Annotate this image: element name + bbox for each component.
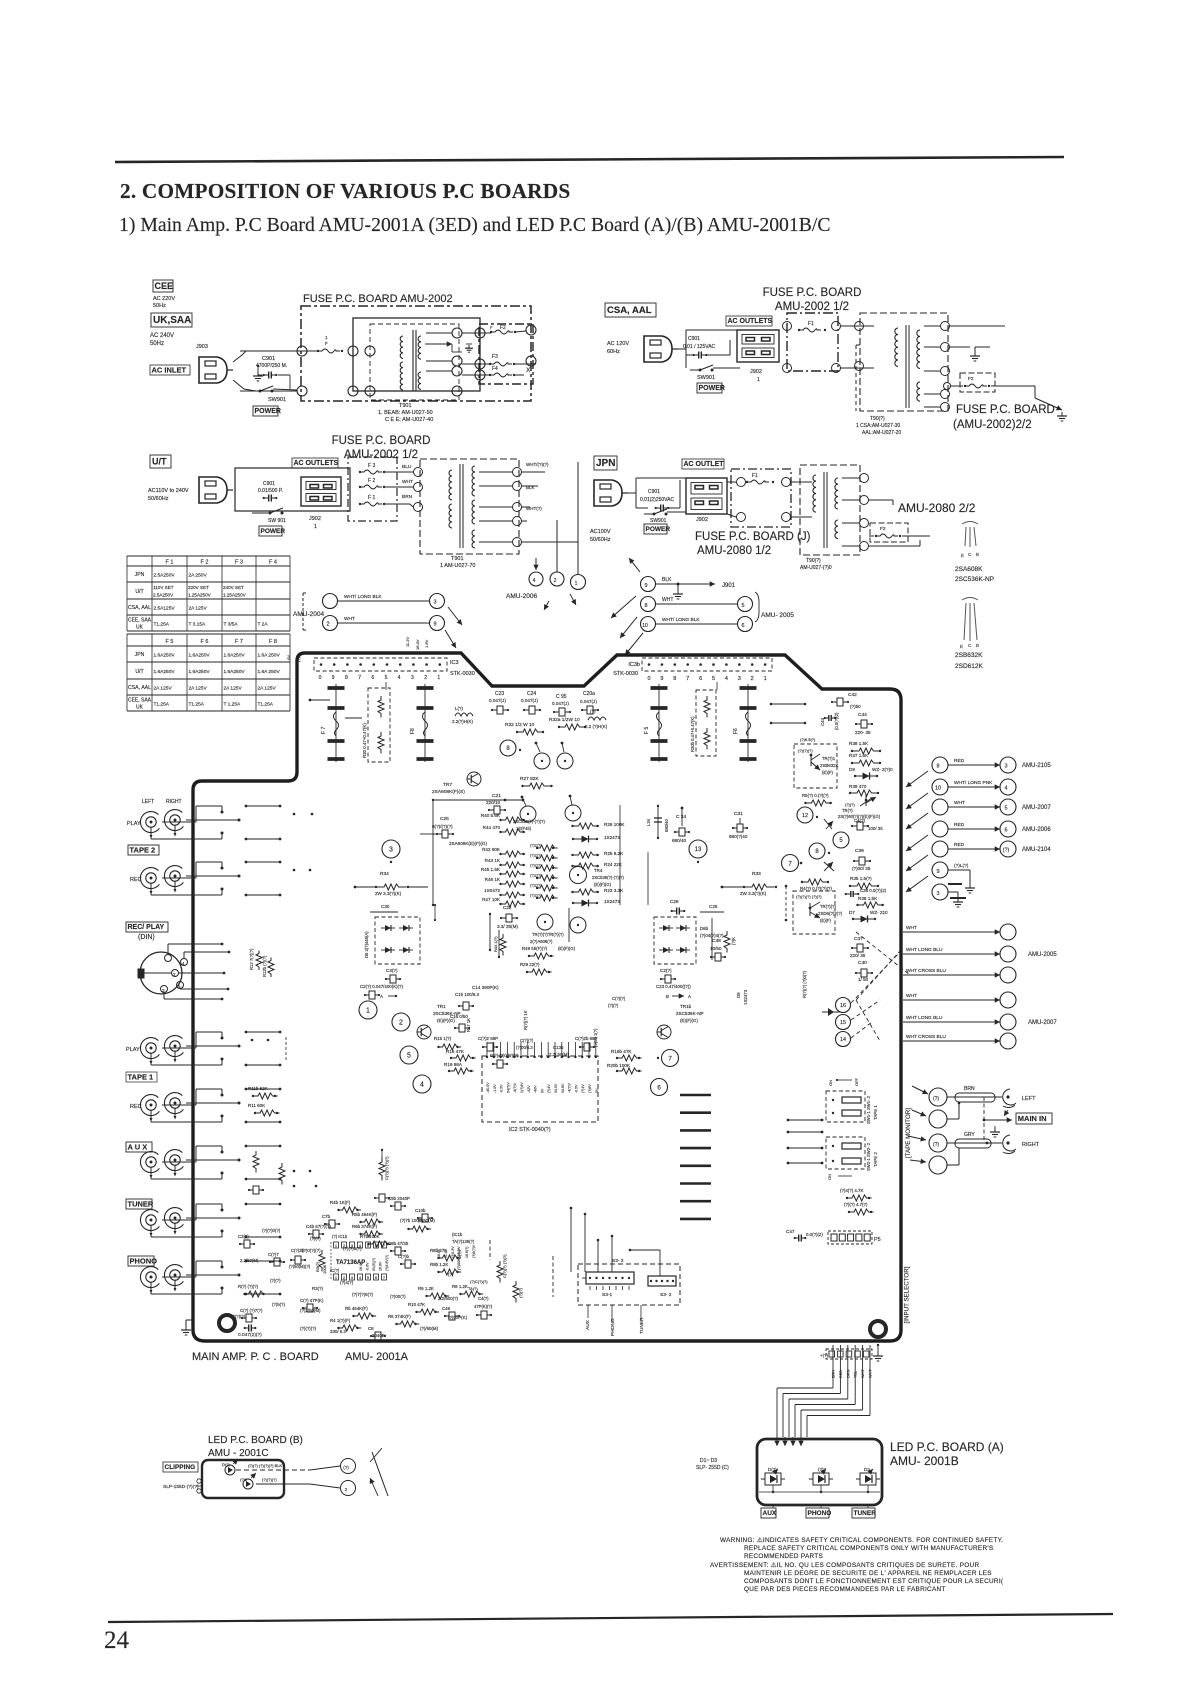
svg-text:(?)7b 100K: (?)7b 100K <box>400 1218 422 1223</box>
svg-text:15: 15 <box>840 1020 846 1026</box>
junction circles left <box>297 346 307 356</box>
svg-text:2040P: 2040P <box>372 1333 385 1338</box>
numbered circle 12 <box>797 807 813 823</box>
svg-text:AMU-2105: AMU-2105 <box>1022 763 1051 769</box>
label CLIPPING <box>163 1462 198 1472</box>
svg-text:CSA, AAL: CSA, AAL <box>128 605 151 611</box>
svg-text:2SB632K: 2SB632K <box>955 652 983 659</box>
fuse table F1-F4 <box>127 555 290 557</box>
dashed vertical left of TR13 <box>785 886 787 920</box>
transistors TR9 TR10 <box>537 914 553 930</box>
numbered circle right 6 <box>651 1079 668 1096</box>
svg-text:(?)L(?): (?)L(?) <box>954 863 969 869</box>
svg-text:2A 125V: 2A 125V <box>189 686 208 692</box>
transformer core <box>412 330 414 391</box>
svg-text:2.5A250V: 2.5A250V <box>153 592 174 597</box>
wire stubs top right <box>771 703 805 705</box>
svg-text:2: 2 <box>343 1276 345 1280</box>
svg-text:TA(?): TA(?) <box>468 1286 478 1291</box>
svg-text:0.0(?)(2): 0.0(?)(2) <box>806 1232 823 1237</box>
AC plug J903 <box>199 357 227 383</box>
svg-text:R(?) (?)(?): R(?) (?)(?) <box>238 1284 259 1289</box>
svg-text:-42V: -42V <box>527 1085 531 1093</box>
svg-text:R46 1K: R46 1K <box>485 877 501 882</box>
svg-text:A U X: A U X <box>128 1143 148 1152</box>
svg-text:(?)6.5(?): (?)6.5(?) <box>800 737 816 742</box>
numbered circle 4 <box>413 1075 431 1093</box>
svg-text:(DIN): (DIN) <box>138 934 155 941</box>
svg-text:AUX: AUX <box>763 1510 777 1517</box>
svg-text:2SC536K-NP: 2SC536K-NP <box>955 576 994 583</box>
svg-text:R25 8.2K: R25 8.2K <box>604 851 624 856</box>
bottom rule <box>108 1614 1113 1622</box>
svg-text:(?)2(?): (?)2(?) <box>530 854 542 858</box>
svg-text:(?): (?) <box>1003 848 1010 854</box>
arrows AMU-2006 <box>535 558 537 570</box>
svg-text:C38 0.0(?)(2): C38 0.0(?)(2) <box>860 888 887 893</box>
svg-text:1S0472: 1S0472 <box>484 888 500 893</box>
svg-text:2SD6(?)2(?): 2SD6(?)2(?) <box>818 911 843 916</box>
central transistor circles pair <box>520 806 536 822</box>
svg-text:1.6A250V: 1.6A250V <box>224 653 246 659</box>
svg-text:F1: F1 <box>808 321 814 327</box>
svg-text:UK: UK <box>136 625 144 631</box>
svg-text:R7b 100K: R7b 100K <box>360 1234 380 1239</box>
svg-text:RIGHT: RIGHT <box>1022 1142 1040 1148</box>
svg-text:C42: C42 <box>848 692 857 698</box>
led D1 board B <box>225 1465 235 1475</box>
svg-text:R32a 1/2W 10: R32a 1/2W 10 <box>549 717 580 723</box>
ground main in <box>994 1126 996 1130</box>
svg-text:D6b: D6b <box>700 926 709 931</box>
svg-text:F1: F1 <box>752 473 758 479</box>
svg-text:JPN: JPN <box>135 652 145 658</box>
svg-text:RED: RED <box>954 758 965 764</box>
svg-text:IC(?): IC(?) <box>330 1268 340 1273</box>
svg-text:T1.25A: T1.25A <box>154 702 170 708</box>
svg-text:R38 1.5K: R38 1.5K <box>849 741 869 746</box>
svg-text:14: 14 <box>840 1037 846 1043</box>
svg-text:(?)(?)(?): (?)(?)(?) <box>262 1477 277 1482</box>
svg-text:AMU-2002 1/2: AMU-2002 1/2 <box>344 449 418 461</box>
fuse F7 with capacitors <box>335 684 337 762</box>
svg-text:C40: C40 <box>858 960 867 966</box>
svg-text:CEE: CEE <box>155 281 174 291</box>
svg-text:COMPOSANTS DONT LE FONCTION: COMPOSANTS DONT LE FONCTIONNEMENT EST CR… <box>744 1578 1004 1585</box>
svg-text:16.6V: 16.6V <box>379 1261 383 1271</box>
svg-text:220- 35: 220- 35 <box>855 730 871 735</box>
svg-text:C47: C47 <box>786 1229 795 1234</box>
svg-text:1: 1 <box>335 1244 337 1248</box>
svg-text:220/10: 220/10 <box>486 800 500 805</box>
svg-text:R39 470: R39 470 <box>849 784 867 789</box>
svg-text:TA(?)136(?): TA(?)136(?) <box>452 1239 475 1244</box>
svg-text:WHT CROSS BLU: WHT CROSS BLU <box>906 968 946 974</box>
svg-text:3: 3 <box>738 676 741 682</box>
CSA secondary taps <box>941 322 950 331</box>
resistor R30 0.47+0.47(K) <box>368 688 390 762</box>
svg-text:C(?)7: C(?)7 <box>268 1252 279 1257</box>
svg-text:F 5: F 5 <box>166 639 174 645</box>
svg-text:-4(?)V: -4(?)V <box>513 1082 517 1093</box>
svg-text:R12 7(?)(?): R12 7(?)(?) <box>249 948 254 970</box>
svg-text:5: 5 <box>367 1276 369 1280</box>
arrows AMU-2005 <box>629 558 640 572</box>
svg-text:50Hz: 50Hz <box>150 341 164 347</box>
svg-text:BLU: BLU <box>402 464 412 470</box>
svg-text:(?)6(?)V: (?)6(?)V <box>472 1244 476 1258</box>
svg-text:LEFT: LEFT <box>142 799 154 805</box>
svg-text:J902: J902 <box>309 516 321 522</box>
label POWER <box>253 406 278 416</box>
jack TUNER <box>140 1210 159 1231</box>
svg-text:MAIN AMP. P. C . BOARD: MAIN AMP. P. C . BOARD <box>192 1351 319 1363</box>
capacitor C38 0.01(2) <box>846 893 851 895</box>
svg-text:2SD612K: 2SD612K <box>955 663 983 670</box>
U/T block outline <box>235 468 350 511</box>
svg-text:(?)/50(M): (?)/50(M) <box>420 1326 439 1331</box>
svg-text:8: 8 <box>644 603 647 609</box>
label POWER JPN <box>644 524 667 534</box>
svg-text:TAPE 2: TAPE 2 <box>130 846 156 855</box>
svg-text:1/ 50: 1/ 50 <box>858 977 869 982</box>
JPN secondary taps <box>860 474 869 483</box>
svg-text:T1.25A: T1.25A <box>189 702 205 708</box>
fuse block F2 F3 F4 <box>479 324 533 384</box>
ic IC1 TA7136AP <box>334 1242 339 1248</box>
U/T transformer coils <box>449 470 452 500</box>
svg-text:T90(?): T90(?) <box>870 416 885 422</box>
svg-text:16.6V: 16.6V <box>437 1248 441 1258</box>
svg-text:(?)(?): (?)(?) <box>608 1003 619 1008</box>
fuse table F5-F8 <box>127 633 290 635</box>
svg-text:D(?): D(?) <box>222 1462 230 1467</box>
inner dot pairs left <box>293 1170 296 1173</box>
svg-text:F 8: F 8 <box>269 639 277 645</box>
svg-text:AC OUTLET: AC OUTLET <box>684 461 725 468</box>
svg-text:(?)2/50(M): (?)2/50(M) <box>300 1308 321 1313</box>
mounting hole left <box>219 1315 235 1331</box>
svg-text:60Hz: 60Hz <box>607 349 620 355</box>
svg-text:C(?)b: C(?)b <box>398 1254 410 1259</box>
svg-text:R34: R34 <box>380 871 389 877</box>
led board A internal wires <box>759 1491 880 1493</box>
svg-text:F: F <box>325 341 328 346</box>
label AUX <box>126 1142 152 1152</box>
board edge circles 16 15 14 <box>836 998 851 1013</box>
arrow to 2/2 <box>1034 386 1036 398</box>
svg-text:2SB632K: 2SB632K <box>820 763 839 768</box>
svg-text:(?)00K 15.9V: (?)00K 15.9V <box>456 1246 461 1270</box>
svg-text:(?)4V: (?)4V <box>547 1084 551 1093</box>
svg-text:4: 4 <box>533 578 536 584</box>
svg-text:WHT/ LONG BLK: WHT/ LONG BLK <box>344 594 382 600</box>
svg-text:(?)(?) 4.7(?): (?)(?) 4.7(?) <box>844 1202 868 1207</box>
svg-text:C46: C46 <box>442 1306 451 1311</box>
svg-text:RED: RED <box>839 1370 843 1378</box>
transistor TR13 dashed box <box>793 891 835 934</box>
svg-text:F4: F4 <box>492 366 498 372</box>
svg-text:(?)2: (?)2 <box>240 1477 248 1482</box>
svg-text:2: 2 <box>751 676 754 682</box>
svg-text:C15 100/6.3: C15 100/6.3 <box>455 992 479 997</box>
label TAPE 1 <box>126 1072 157 1082</box>
svg-text:WHT LONG BLU: WHT LONG BLU <box>906 947 943 953</box>
svg-text:5: 5 <box>741 603 744 609</box>
svg-text:AVERTISSEMENT: ⚠IL NO. QU L: AVERTISSEMENT: ⚠IL NO. QU LES COMPOSANTS… <box>710 1562 979 1569</box>
svg-text:3: 3 <box>936 891 939 897</box>
svg-text:C20a: C20a <box>583 691 595 697</box>
svg-text:1.25A250V: 1.25A250V <box>223 592 247 597</box>
jack PHONO <box>140 1267 159 1288</box>
svg-text:F3: F3 <box>492 354 498 360</box>
JPN wires from plug <box>628 492 636 494</box>
DIN wires <box>167 944 169 954</box>
svg-text:(?)(?): (?)(?) <box>310 1236 321 1241</box>
svg-text:P5: P5 <box>874 1237 881 1243</box>
svg-text:TUNER: TUNER <box>639 1317 645 1334</box>
svg-text:PLAY: PLAY <box>127 821 141 827</box>
svg-text:1(?)4V: 1(?)4V <box>520 1082 524 1093</box>
switch SW901 <box>233 380 244 389</box>
svg-text:(?)6.6V(?): (?)6.6V(?) <box>385 1255 389 1271</box>
jack AUX <box>140 1152 159 1173</box>
svg-text:0.047(2)(?): 0.047(2)(?) <box>238 1332 262 1338</box>
led D2 board B <box>243 1479 253 1489</box>
svg-text:5: 5 <box>367 1244 369 1248</box>
svg-text:R6 374K(F): R6 374K(F) <box>388 1314 411 1319</box>
svg-text:POWER: POWER <box>261 528 286 535</box>
svg-text:680(?)40: 680(?)40 <box>729 834 748 839</box>
svg-text:2A 125V: 2A 125V <box>258 686 277 692</box>
vertical resistor line right of bridge <box>711 918 713 960</box>
svg-text:SW901: SW901 <box>697 375 715 381</box>
label PHONO <box>128 1256 154 1266</box>
outlet J902 JPN <box>686 478 727 514</box>
svg-text:1: 1 <box>366 1008 370 1015</box>
svg-text:1.6A250V: 1.6A250V <box>154 653 176 659</box>
capacitor C42 1/50 <box>832 701 837 703</box>
led board B outline AMU-2001C <box>202 1460 284 1498</box>
svg-text:C(?)(?): C(?)(?) <box>612 996 626 1001</box>
svg-text:16.4V: 16.4V <box>359 1261 363 1271</box>
DIN connector <box>140 952 182 994</box>
svg-text:R4(?) 0.(?)(?)(?): R4(?) 0.(?)(?)(?) <box>800 886 832 891</box>
label AC OUTLETS CSA <box>726 316 772 326</box>
label JPN <box>594 456 617 470</box>
svg-text:3: 3 <box>351 1276 353 1280</box>
svg-text:ON: ON <box>827 1174 832 1180</box>
svg-text:(?)00/6.3: (?)00/6.3 <box>516 1045 533 1050</box>
svg-text:(E)(F)(G): (E)(F)(G) <box>680 1018 698 1023</box>
svg-text:T901: T901 <box>451 556 464 562</box>
svg-text:-40.0V: -40.0V <box>486 1082 490 1093</box>
transformer T901 U/T dashed box <box>420 459 519 554</box>
svg-text:POWER: POWER <box>646 526 671 533</box>
svg-text:(?)(?)(?) (?)(?): (?)(?)(?) (?)(?) <box>796 894 822 899</box>
svg-text:R5(?) 0.(?)(?): R5(?) 0.(?)(?) <box>802 793 829 798</box>
svg-text:1.25A250V: 1.25A250V <box>188 592 212 597</box>
svg-text:C(?)(?) (?)(?): C(?)(?) (?)(?) <box>384 1156 389 1180</box>
svg-text:(?)0(?)(?): (?)0(?)(?) <box>302 1248 321 1253</box>
svg-text:7: 7 <box>788 860 792 867</box>
svg-text:(?)50(M)(?): (?)50(M)(?) <box>289 1264 311 1269</box>
svg-text:F8: F8 <box>410 728 416 734</box>
label MAIN IN <box>1016 1113 1052 1124</box>
svg-text:[TAPE MONITOR]: [TAPE MONITOR] <box>905 1108 912 1158</box>
svg-text:R26 100K: R26 100K <box>604 822 625 827</box>
svg-text:CLIPPING: CLIPPING <box>165 1464 196 1471</box>
svg-text:C44: C44 <box>858 712 867 718</box>
svg-text:6: 6 <box>371 675 374 681</box>
switch SW901 JPN <box>653 513 656 516</box>
label UK,SAA <box>151 313 192 327</box>
svg-text:L(?): L(?) <box>455 706 464 711</box>
svg-text:TR(?): TR(?) <box>842 808 853 813</box>
svg-text:CSA, AAL: CSA, AAL <box>607 305 652 316</box>
svg-text:C901: C901 <box>648 489 660 495</box>
svg-text:2: 2 <box>554 578 557 584</box>
svg-text:R42 60K: R42 60K <box>482 847 501 852</box>
svg-text:R6b 374K(F): R6b 374K(F) <box>352 1224 378 1229</box>
svg-text:AC INLET: AC INLET <box>152 366 187 375</box>
svg-text:SW1-1 SW1- 2: SW1-1 SW1- 2 <box>866 1095 871 1124</box>
svg-text:F 3: F 3 <box>368 463 375 469</box>
svg-text:50/60Hz: 50/60Hz <box>590 537 611 543</box>
svg-text:1S2473: 1S2473 <box>743 989 748 1005</box>
svg-text:0.047(J): 0.047(J) <box>580 699 597 704</box>
svg-text:2: 2 <box>424 675 427 681</box>
svg-text:5: 5 <box>385 675 388 681</box>
svg-text:C10b: C10b <box>415 1208 426 1213</box>
svg-text:C4b 67(?)(?): C4b 67(?)(?) <box>306 1224 331 1229</box>
svg-text:F 2: F 2 <box>368 478 375 484</box>
wire bundle routing <box>832 1382 834 1388</box>
svg-text:SW901: SW901 <box>650 518 667 524</box>
svg-text:R47 10K: R47 10K <box>482 897 501 902</box>
svg-text:AC OUTLETS: AC OUTLETS <box>728 318 773 325</box>
svg-text:AC 240V: AC 240V <box>150 333 174 339</box>
right row 9 BLK ground <box>932 862 948 878</box>
svg-text:13: 13 <box>695 847 702 853</box>
svg-text:REPLACE SAFETY CRITICAL COM: REPLACE SAFETY CRITICAL COMPONENTS ONLY … <box>744 1545 994 1552</box>
svg-text:AMU- 2001B: AMU- 2001B <box>890 1454 959 1468</box>
transformer secondary coils <box>418 336 421 359</box>
stubs below IC3 connectors <box>385 682 387 690</box>
ground CSA <box>974 347 976 352</box>
AC plug CSA <box>644 336 672 362</box>
svg-text:AC110V to 240V: AC110V to 240V <box>148 488 189 494</box>
svg-text:LEFT: LEFT <box>1022 1096 1036 1102</box>
svg-text:(E)(F): (E)(F) <box>820 918 832 923</box>
svg-text:9: 9 <box>332 675 335 681</box>
svg-text:(E)(F)(G): (E)(F)(G) <box>558 946 576 951</box>
transistor TR11 dashed box <box>794 744 837 788</box>
svg-text:2.2 (?)H(K): 2.2 (?)H(K) <box>585 724 608 729</box>
svg-text:C2(?): C2(?) <box>660 968 672 973</box>
label AC OUTLETS U/T <box>292 458 338 468</box>
fuse F2 CSA <box>960 373 995 392</box>
svg-text:110V SET: 110V SET <box>153 585 174 590</box>
svg-text:1: 1 <box>314 524 317 530</box>
svg-text:C21: C21 <box>492 793 501 799</box>
wire to MAIN IN <box>947 1118 959 1120</box>
fuse block JPN <box>731 469 791 527</box>
svg-text:2.2/500(?): 2.2/500(?) <box>438 1296 459 1301</box>
svg-text:X: X <box>526 367 531 374</box>
switch SW901 CSA <box>699 369 702 372</box>
svg-text:F 7: F 7 <box>321 727 327 734</box>
csa dashed link box <box>856 344 860 346</box>
ground at plug <box>257 366 259 372</box>
U/T secondary taps <box>513 468 522 477</box>
svg-text:7: 7 <box>383 1276 385 1280</box>
svg-text:(?)C(?)(?): (?)C(?)(?) <box>470 1279 488 1284</box>
svg-text:F 5: F 5 <box>644 727 650 734</box>
svg-text:TR(?)1: TR(?)1 <box>822 756 836 761</box>
outlet J902 U/T <box>301 477 341 506</box>
svg-text:R44 1(?): R44 1(?) <box>493 936 498 952</box>
label TUNER box <box>852 1508 875 1518</box>
svg-text:WARNING: ⚠INDICATES SAFETY: WARNING: ⚠INDICATES SAFETY CRITICAL COMP… <box>720 1537 1003 1544</box>
numbered circle 5 <box>400 1046 418 1064</box>
resistor R30b 0.47+0.47(K) <box>696 690 716 756</box>
switch SW901 U/T <box>269 512 272 515</box>
numbered circle 3 left <box>382 840 400 858</box>
svg-text:(?): (?) <box>448 1272 454 1277</box>
svg-text:AMU-2002 1/2: AMU-2002 1/2 <box>775 301 849 313</box>
svg-text:9: 9 <box>936 869 939 875</box>
svg-text:0V: 0V <box>540 1088 544 1093</box>
wire bundle labels <box>832 1345 834 1382</box>
svg-text:AMU-2005: AMU-2005 <box>1028 952 1057 958</box>
svg-text:(?)00/ 35: (?)00/ 35 <box>852 866 871 871</box>
svg-text:YEL: YEL <box>854 1371 858 1378</box>
tape monitor circles <box>929 1088 947 1106</box>
vertical wires above S3 <box>570 1208 572 1272</box>
svg-text:(?)5.9V: (?)5.9V <box>451 1246 455 1258</box>
svg-text:2: 2 <box>326 622 329 628</box>
svg-text:J903: J903 <box>196 344 208 350</box>
label CEE <box>153 280 173 292</box>
svg-text:1. BEAB: AM-U027-50: 1. BEAB: AM-U027-50 <box>378 410 433 416</box>
svg-text:T 1.25A: T 1.25A <box>224 702 242 708</box>
numbered circle 7 mid <box>782 855 799 872</box>
label REC/PLAY (DIN) <box>126 922 168 932</box>
svg-text:WHT: WHT <box>869 1369 873 1378</box>
svg-text:(IC1b: (IC1b <box>452 1232 463 1237</box>
svg-text:[INPUT SELECTOR]: [INPUT SELECTOR] <box>904 1266 911 1323</box>
svg-text:R12b (?)(?): R12b (?)(?) <box>262 955 267 977</box>
svg-text:QUE PAR DES PIECES RECOMMA: QUE PAR DES PIECES RECOMMANDEES PAR LE F… <box>744 1586 946 1593</box>
numbered circle 5b <box>833 832 849 848</box>
svg-text:TR4: TR4 <box>594 868 603 873</box>
svg-text:LED P.C. BOARD (B): LED P.C. BOARD (B) <box>208 1435 303 1446</box>
svg-text:(0.0(?)(2): (0.0(?)(2) <box>834 712 839 730</box>
svg-text:-1.0V: -1.0V <box>493 1084 497 1093</box>
svg-text:3.3/ 25(M): 3.3/ 25(M) <box>497 924 518 929</box>
svg-text:S3-1: S3-1 <box>602 1292 612 1298</box>
svg-text:-0.1V: -0.1V <box>444 1249 448 1258</box>
JPN transformer coils <box>813 475 816 512</box>
svg-text:(?)(?)(?): (?)(?)(?) <box>300 1326 317 1331</box>
svg-text:WHT: WHT <box>344 616 355 622</box>
svg-text:4: 4 <box>420 1082 424 1089</box>
svg-text:T1.25A: T1.25A <box>154 622 170 628</box>
svg-text:R8 1.2K: R8 1.2K <box>452 1284 468 1289</box>
transformer T901 primary coil <box>400 336 403 358</box>
outlet J902 CSA <box>737 330 779 362</box>
